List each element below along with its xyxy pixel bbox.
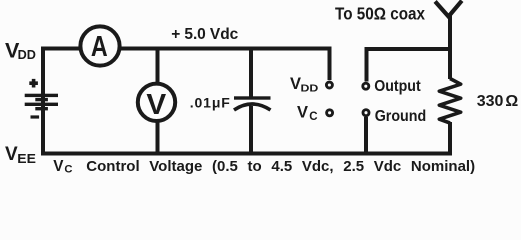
wire: top rail (ammeter to VDD terminal drop) — [120, 49, 330, 81]
battery minus sign — [31, 115, 40, 118]
wire: ground terminal drop to bottom rail — [364, 117, 368, 154]
wire: output branch riser and connector to antenna line — [367, 49, 451, 82]
terminal VDD circle — [326, 82, 332, 88]
svg-text:V: V — [297, 104, 308, 122]
svg-text:DD: DD — [18, 47, 36, 62]
resistor R1 330 ohm zigzag — [439, 79, 460, 124]
wire: top rail left segment (VDD corner to ammeter) — [43, 49, 80, 155]
svg-text:Output: Output — [374, 78, 421, 95]
wire: capacitor bottom drop — [249, 106, 253, 154]
wire: resistor bottom lead — [448, 122, 452, 154]
capacitor C1 curved plate — [234, 104, 271, 110]
svg-text:DD: DD — [301, 83, 319, 95]
svg-text:To 50Ω coax: To 50Ω coax — [335, 3, 425, 23]
capacitor C1 top plate — [234, 96, 271, 99]
svg-text:C: C — [64, 164, 72, 176]
antenna (to coax) — [437, 2, 461, 16]
svg-text:.01μF: .01μF — [190, 95, 230, 111]
terminal Ground circle — [363, 110, 369, 116]
wire: voltmeter top drop — [156, 49, 160, 84]
svg-text:V: V — [5, 144, 18, 165]
terminal Output circle — [363, 83, 369, 89]
wire: bottom rail — [41, 152, 452, 156]
svg-text:EE: EE — [17, 151, 36, 166]
battery plus sign — [29, 79, 38, 88]
terminal VC circle — [327, 110, 333, 116]
wire: capacitor top drop — [249, 49, 253, 98]
svg-text:V: V — [53, 158, 64, 175]
svg-text:Control Voltage (0.5 to 4.5 Vd: Control Voltage (0.5 to 4.5 Vdc, 2.5 Vdc… — [86, 158, 475, 175]
svg-text:C: C — [309, 111, 317, 123]
wire: voltmeter bottom drop — [156, 122, 160, 154]
svg-text:A: A — [91, 31, 108, 63]
wire: antenna stem down to resistor — [448, 14, 452, 79]
ammeter A1 circle — [80, 26, 119, 65]
voltmeter V1 circle — [138, 84, 175, 121]
svg-text:V: V — [290, 75, 301, 93]
svg-text:330Ω: 330Ω — [477, 93, 519, 110]
svg-text:Ground: Ground — [375, 108, 427, 125]
svg-text:+ 5.0 Vdc: + 5.0 Vdc — [171, 26, 238, 43]
battery B1 plates — [25, 94, 58, 111]
svg-text:V: V — [146, 89, 166, 121]
